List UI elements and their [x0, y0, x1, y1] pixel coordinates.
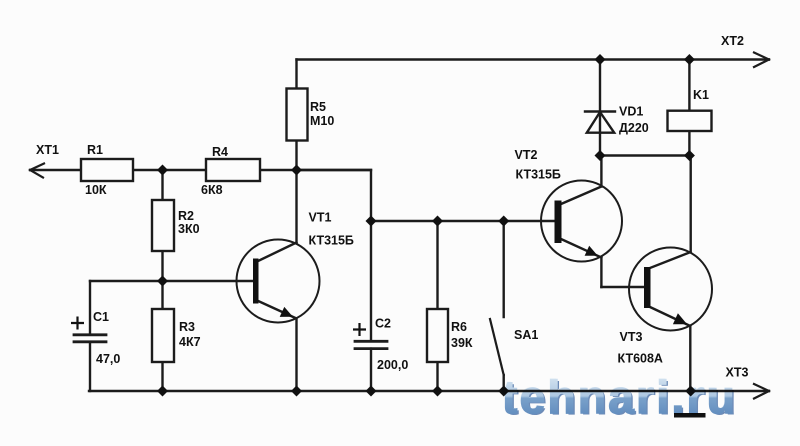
svg-text:200,0: 200,0 [377, 358, 408, 372]
svg-text:K1: K1 [693, 88, 709, 102]
svg-text:C1: C1 [93, 310, 109, 324]
svg-text:XT2: XT2 [721, 34, 744, 48]
svg-text:VT1: VT1 [309, 211, 332, 225]
svg-text:М10: М10 [310, 114, 334, 128]
svg-text:R6: R6 [451, 320, 467, 334]
svg-text:Д220: Д220 [619, 121, 649, 135]
svg-text:10К: 10К [85, 183, 107, 197]
svg-text:R3: R3 [179, 320, 195, 334]
svg-text:КТ315Б: КТ315Б [516, 168, 561, 182]
svg-text:КТ608А: КТ608А [618, 352, 663, 366]
svg-text:XT1: XT1 [36, 143, 59, 157]
svg-text:R5: R5 [310, 100, 326, 114]
svg-text:VT2: VT2 [515, 148, 538, 162]
svg-text:R2: R2 [178, 209, 194, 223]
svg-text:SA1: SA1 [514, 328, 538, 342]
svg-text:3К0: 3К0 [178, 222, 200, 236]
svg-text:R4: R4 [212, 145, 228, 159]
svg-text:КТ315Б: КТ315Б [309, 234, 354, 248]
svg-text:VD1: VD1 [619, 105, 643, 119]
svg-text:47,0: 47,0 [96, 352, 120, 366]
svg-text:tehnari.ru: tehnari.ru [502, 371, 737, 423]
svg-text:R1: R1 [87, 143, 103, 157]
svg-text:39К: 39К [451, 336, 473, 350]
svg-text:6К8: 6К8 [201, 183, 223, 197]
svg-text:4К7: 4К7 [179, 335, 201, 349]
svg-text:C2: C2 [375, 317, 391, 331]
svg-text:VT3: VT3 [620, 330, 643, 344]
